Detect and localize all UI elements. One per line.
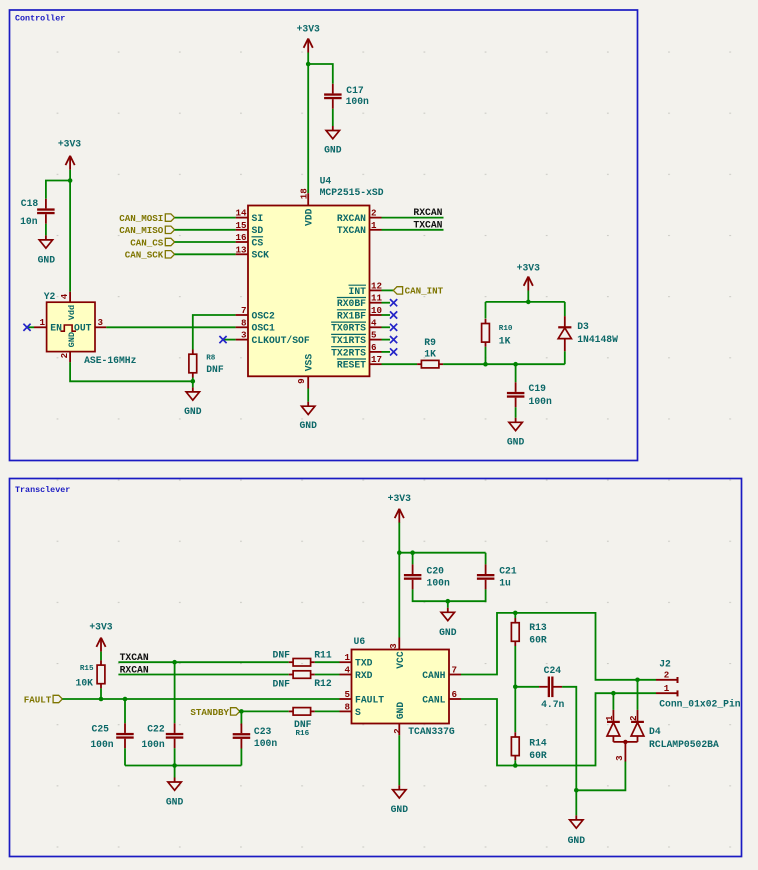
sheet box Transceiver: [10, 479, 742, 857]
svg-text:14: 14: [235, 208, 247, 219]
wire branch to C17: [308, 64, 333, 84]
wire TXCAN: [382, 229, 444, 231]
svg-text:3: 3: [241, 330, 247, 341]
node junction R14 bottom: [513, 763, 518, 768]
U4 pin 3 CLKOUT/SOF: [236, 339, 248, 341]
svg-text:STANDBY: STANDBY: [190, 707, 229, 718]
wire +3V3 stem: [69, 170, 71, 181]
resistor R16: [289, 710, 293, 712]
wire CANH net: [461, 613, 656, 680]
wire D4 pin3 to ground net: [576, 762, 625, 791]
svg-text:EN: EN: [50, 323, 62, 334]
wire C25 branch: [124, 699, 126, 723]
svg-text:DNF: DNF: [273, 650, 291, 661]
svg-text:OSC1: OSC1: [252, 323, 275, 334]
svg-text:Vdd: Vdd: [67, 305, 77, 320]
wire RXCAN: [382, 217, 444, 219]
wire FAULT to U6: [62, 698, 339, 700]
svg-text:1: 1: [604, 715, 615, 721]
wire C22 to rail: [174, 748, 176, 765]
wire C23 branch: [240, 711, 242, 723]
capacitor C21: [485, 564, 487, 574]
U4 pin 4 TX0RTS: [370, 326, 382, 328]
wire R16 to U6 S: [315, 710, 340, 712]
capacitor C17: [332, 84, 334, 94]
ground below U4: [307, 402, 309, 407]
svg-text:5: 5: [344, 689, 350, 700]
resistor R11: [289, 661, 293, 663]
svg-text:GND: GND: [439, 627, 457, 638]
no-connect X on U4 right pin: [382, 314, 391, 316]
D4 pin 3 lead: [624, 742, 626, 762]
wire VDD vertical to U4 pin 18: [307, 64, 309, 193]
U4 pin 8 OSC1: [236, 326, 248, 328]
svg-text:3: 3: [614, 755, 625, 761]
svg-text:4: 4: [59, 293, 70, 299]
svg-text:+3V3: +3V3: [517, 262, 540, 273]
svg-text:100n: 100n: [427, 578, 450, 589]
wire C21 top lead: [485, 553, 487, 565]
wire Y2 GND pin to R8 bottom rail: [70, 362, 193, 381]
svg-text:C22: C22: [147, 724, 165, 735]
svg-text:60R: 60R: [529, 635, 547, 646]
Y2 pin 3 OUT (right): [95, 326, 106, 328]
capacitor C20: [412, 564, 414, 574]
svg-text:DNF: DNF: [294, 719, 312, 730]
svg-text:+3V3: +3V3: [297, 24, 320, 35]
svg-text:R12: R12: [314, 678, 332, 689]
node junction D4 pin1 branch: [611, 691, 616, 696]
wire +3V3 to rail: [527, 291, 529, 302]
resistor R14: [514, 732, 516, 737]
svg-text:R8: R8: [206, 355, 216, 363]
capacitor C25: [124, 723, 126, 733]
svg-text:GND: GND: [395, 702, 406, 720]
wire R9 to C19/D3 rail: [443, 363, 565, 365]
D4 internal junction: [613, 741, 637, 743]
svg-text:C21: C21: [499, 566, 517, 577]
svg-text:3: 3: [388, 643, 399, 649]
svg-text:+3V3: +3V3: [58, 139, 81, 150]
svg-text:CANL: CANL: [422, 694, 445, 705]
svg-text:C18: C18: [21, 198, 39, 209]
U6 pin 2 GND (bottom): [398, 724, 400, 736]
wire VSS to ground: [307, 389, 309, 402]
node junction +3V3/C18: [68, 178, 73, 183]
wire C25 to rail: [124, 748, 126, 765]
svg-text:2: 2: [392, 728, 403, 734]
svg-text:D4: D4: [649, 726, 661, 737]
U4 pin 7 OSC2: [236, 314, 248, 316]
U4 pin 14 SI: [236, 217, 248, 219]
ground below C20/C21: [447, 608, 449, 613]
node junction C24/D4 ground: [574, 788, 579, 793]
capacitor C23: [240, 724, 242, 734]
resistor R10: [485, 319, 487, 324]
svg-text:GND: GND: [568, 835, 586, 846]
wire CAN_CS to U4: [175, 241, 236, 243]
U4 pin 2 RXCAN: [370, 217, 382, 219]
U4 pin 11 RX0BF: [370, 302, 382, 304]
wire caps ground rail: [125, 765, 241, 767]
svg-text:CAN_CS: CAN_CS: [130, 237, 164, 248]
node junction R15/FAULT: [99, 697, 104, 702]
svg-text:DNF: DNF: [206, 364, 224, 375]
no-connect X on U4 right pin: [382, 302, 391, 304]
svg-text:12: 12: [371, 280, 382, 291]
capacitor C22: [174, 723, 176, 733]
svg-text:2: 2: [664, 670, 670, 681]
svg-text:R9: R9: [424, 337, 436, 348]
node junction +3V3/C17: [306, 62, 311, 67]
svg-text:GND: GND: [299, 420, 317, 431]
svg-text:2: 2: [59, 353, 70, 359]
svg-text:7: 7: [452, 665, 458, 676]
svg-text:10n: 10n: [20, 216, 38, 227]
svg-text:6: 6: [452, 689, 458, 700]
wire branch to C18: [46, 181, 70, 199]
svg-text:S: S: [355, 707, 361, 718]
U6 pin 7 CANH: [449, 674, 461, 676]
svg-text:C17: C17: [346, 85, 364, 96]
node junction R13 top: [513, 611, 518, 616]
U4 pin 13 SCK: [236, 253, 248, 255]
svg-text:17: 17: [371, 354, 382, 365]
wire TXCAN to R11: [118, 661, 288, 663]
svg-text:CANH: CANH: [422, 670, 445, 681]
svg-text:Y2: Y2: [44, 291, 56, 302]
wire R15 to FAULT net: [100, 688, 102, 699]
wire C24 right to ground net: [562, 687, 576, 791]
wire +3V3 down to Y2 Vdd pin 4: [69, 181, 71, 292]
wire R10 to bottom rail: [485, 347, 487, 364]
wire U6 GND to ground: [398, 735, 400, 785]
U4 pin 10 RX1BF: [370, 314, 382, 316]
svg-text:1: 1: [664, 683, 670, 694]
svg-text:TXCAN: TXCAN: [413, 219, 442, 230]
wire INT to CAN_INT label: [382, 289, 394, 291]
svg-text:CAN_MOSI: CAN_MOSI: [119, 213, 163, 224]
wire top rail R10-D3: [486, 301, 565, 303]
wire to ground: [447, 601, 449, 608]
wire ground drop: [575, 790, 577, 815]
wire Y2 OUT to U4 OSC1: [106, 326, 235, 328]
svg-text:FAULT: FAULT: [355, 694, 384, 705]
capacitor C24: [539, 686, 548, 688]
svg-text:R15: R15: [80, 665, 94, 673]
svg-text:1: 1: [344, 652, 350, 663]
sheet box Controller: [10, 10, 638, 461]
wire U4 OSC2 down to R8: [193, 315, 236, 350]
U4 pin 9 VSS (bottom): [307, 376, 309, 388]
capacitor C19: [515, 382, 517, 392]
svg-text:1: 1: [39, 317, 45, 328]
svg-text:TX2RTS: TX2RTS: [331, 347, 366, 358]
wire R13 to C24 node: [514, 646, 516, 687]
svg-text:CAN_MISO: CAN_MISO: [119, 225, 164, 236]
J2 pin 2: [656, 679, 678, 681]
svg-text:TX1RTS: TX1RTS: [331, 335, 366, 346]
svg-text:VCC: VCC: [395, 651, 406, 669]
U4 pin 1 TXCAN: [370, 229, 382, 231]
svg-text:15: 15: [235, 220, 247, 231]
wire +3V3 stem to junction: [307, 53, 309, 65]
svg-text:RCLAMP0502BA: RCLAMP0502BA: [649, 739, 719, 750]
svg-text:CS: CS: [252, 237, 264, 248]
Y2 square-wave glyph: [61, 325, 77, 331]
svg-text:U6: U6: [354, 636, 366, 647]
svg-text:Controller: Controller: [15, 13, 65, 23]
node junction R8/Y2 ground net: [191, 379, 196, 384]
svg-text:5: 5: [371, 330, 377, 341]
node junction +3V3 rail: [526, 300, 531, 305]
svg-text:+3V3: +3V3: [89, 621, 112, 632]
wire CAN_MISO to U4: [175, 229, 236, 231]
node junction C20 top: [410, 550, 415, 555]
resistor R13: [514, 618, 516, 623]
svg-text:GND: GND: [507, 437, 525, 448]
resistor R12: [289, 674, 293, 676]
ground below U6: [398, 785, 400, 790]
node junction C23/STANDBY: [239, 709, 244, 714]
wire R14 bottom lead: [514, 760, 516, 765]
U4 pin 12 INT: [370, 289, 382, 291]
svg-text:R16: R16: [296, 730, 310, 738]
wire C24 left lead: [515, 686, 539, 688]
U4 pin 16 CS: [236, 241, 248, 243]
wire RESET to R9: [382, 363, 418, 365]
wire CAN_MOSI to U4: [175, 217, 236, 219]
svg-text:11: 11: [371, 293, 383, 304]
wire CANL net: [461, 693, 656, 765]
svg-text:Conn_01x02_Pin: Conn_01x02_Pin: [659, 698, 741, 709]
wire C20 top lead: [412, 553, 414, 565]
J2 pin 1: [656, 692, 678, 694]
svg-text:SD: SD: [252, 225, 264, 236]
ground below C19: [515, 418, 517, 423]
U4 pin 18 VDD (top): [307, 193, 309, 205]
svg-text:CAN_SCK: CAN_SCK: [125, 250, 164, 261]
svg-text:R13: R13: [529, 622, 547, 633]
svg-text:RXCAN: RXCAN: [337, 213, 366, 224]
ground below R8: [192, 387, 194, 392]
no-connect X on U4 pin 3 CLKOUT/SOF: [224, 339, 236, 341]
svg-text:16: 16: [235, 232, 246, 243]
svg-text:MCP2515-xSD: MCP2515-xSD: [320, 187, 384, 198]
svg-text:GND: GND: [166, 797, 184, 808]
wire rail to R10: [485, 302, 487, 319]
svg-text:TXD: TXD: [355, 658, 373, 669]
wire rail to ground: [174, 766, 176, 778]
svg-text:C23: C23: [254, 726, 272, 737]
wire R11 to U6 TXD: [315, 661, 340, 663]
IC U4 MCP2515-xSD body: [248, 206, 370, 377]
svg-text:VSS: VSS: [304, 354, 315, 372]
wire D3 to bottom rail: [564, 351, 566, 364]
svg-text:GND: GND: [38, 255, 56, 266]
resistor R9: [417, 363, 421, 365]
node junction C19 top: [513, 362, 518, 367]
wire rail to D3: [564, 302, 566, 316]
crystal oscillator Y2: [47, 302, 95, 351]
svg-text:U4: U4: [320, 176, 332, 187]
svg-text:TX0RTS: TX0RTS: [331, 323, 366, 334]
svg-text:GND: GND: [184, 406, 202, 417]
node junction +3V3/C20 rail: [397, 550, 402, 555]
svg-text:CLKOUT/SOF: CLKOUT/SOF: [252, 335, 310, 346]
svg-text:SI: SI: [252, 213, 264, 224]
wire junction to ground: [192, 381, 194, 387]
svg-text:GND: GND: [67, 332, 77, 347]
svg-text:RXD: RXD: [355, 670, 373, 681]
svg-text:13: 13: [235, 244, 247, 255]
wire C17 to ground: [332, 109, 334, 126]
dual diode D4 RCLAMP0502BA: [612, 693, 614, 710]
U6 pin 3 VCC (top): [398, 638, 400, 650]
svg-text:C20: C20: [427, 566, 445, 577]
svg-text:CAN_INT: CAN_INT: [405, 286, 444, 297]
U4 pin 15 SD: [236, 229, 248, 231]
U6 pin 1 TXD: [340, 661, 352, 663]
svg-text:+3V3: +3V3: [388, 493, 411, 504]
no-connect X on Y2 pin 1: [28, 326, 34, 328]
IC U6 TCAN337G body: [352, 650, 450, 724]
wire C19 to ground: [515, 407, 517, 418]
Y2 pin 2 GND (bottom): [69, 352, 71, 363]
svg-text:18: 18: [298, 188, 309, 200]
svg-text:6: 6: [371, 342, 377, 353]
wire VCC vertical to U6 pin 3: [398, 553, 400, 638]
wire R8 bottom to junction: [192, 378, 194, 382]
svg-text:100n: 100n: [529, 396, 552, 407]
svg-text:RX1BF: RX1BF: [337, 310, 366, 321]
wire C23 to rail: [240, 749, 242, 766]
svg-text:1N4148W: 1N4148W: [577, 334, 618, 345]
svg-text:FAULT: FAULT: [24, 694, 52, 705]
hierarchical label CAN_INT: [393, 287, 402, 294]
svg-text:4.7n: 4.7n: [541, 699, 564, 710]
svg-text:8: 8: [344, 701, 350, 712]
svg-text:2: 2: [628, 715, 639, 721]
svg-text:DNF: DNF: [273, 678, 291, 689]
wire C22 branch (from TXCAN): [174, 662, 176, 723]
svg-text:1K: 1K: [424, 349, 436, 360]
U6 pin 6 CANL: [449, 698, 461, 700]
svg-text:RXCAN: RXCAN: [413, 207, 442, 218]
svg-text:4: 4: [344, 665, 350, 676]
svg-text:4: 4: [371, 317, 377, 328]
ground below C17: [332, 126, 334, 131]
svg-text:1: 1: [371, 220, 377, 231]
wire STANDBY to R16: [240, 710, 289, 712]
node junction R13/R14/C24: [513, 685, 518, 690]
no-connect X on U4 right pin: [382, 339, 391, 341]
svg-text:100n: 100n: [346, 96, 369, 107]
no-connect X on U4 right pin: [382, 351, 391, 353]
svg-text:OSC2: OSC2: [252, 310, 275, 321]
svg-text:C25: C25: [92, 724, 110, 735]
wire CAN_SCK to U4: [175, 253, 236, 255]
svg-text:GND: GND: [391, 804, 409, 815]
svg-text:9: 9: [296, 378, 307, 384]
capacitor C18: [45, 199, 47, 209]
U4 pin 17 RESET: [370, 363, 382, 365]
diode D3: [564, 316, 566, 327]
U4 pin 6 TX2RTS: [370, 351, 382, 353]
svg-text:SCK: SCK: [252, 250, 270, 261]
svg-text:C24: C24: [544, 665, 562, 676]
resistor R8: [192, 350, 194, 355]
wire RXCAN to R12: [118, 674, 288, 676]
wire R12 to U6 RXD: [315, 674, 340, 676]
no-connect X on U4 right pin: [382, 326, 391, 328]
svg-text:100n: 100n: [141, 739, 164, 750]
Y2 pin 4 Vdd (top): [69, 292, 71, 302]
wire R13 top lead: [514, 613, 516, 618]
svg-text:10K: 10K: [76, 678, 94, 689]
svg-text:ASE-16MHz: ASE-16MHz: [84, 355, 137, 366]
node junction TXCAN/C22: [172, 660, 177, 665]
svg-text:60R: 60R: [529, 750, 547, 761]
wire R14 top lead: [514, 687, 516, 733]
node junction C25/FAULT: [123, 697, 128, 702]
node junction D4 pin2 branch: [635, 678, 640, 683]
svg-text:RESET: RESET: [337, 360, 366, 371]
resistor R15: [100, 660, 102, 665]
svg-text:Transclever: Transclever: [15, 485, 70, 495]
node junction rail ground: [172, 763, 177, 768]
svg-text:INT: INT: [349, 286, 367, 297]
ground below C18: [45, 235, 47, 240]
svg-text:10: 10: [371, 305, 382, 316]
node junction caps ground: [446, 599, 451, 604]
U6 pin 4 RXD: [340, 674, 352, 676]
node junction R10 bottom: [483, 362, 488, 367]
svg-text:100n: 100n: [90, 739, 113, 750]
wire +3V3 to R15: [100, 652, 102, 661]
ground below caps: [174, 778, 176, 783]
svg-text:C19: C19: [529, 383, 547, 394]
svg-text:VDD: VDD: [304, 208, 315, 226]
svg-text:1u: 1u: [499, 578, 511, 589]
wire cap rail bottom: [413, 589, 486, 601]
svg-text:7: 7: [241, 305, 247, 316]
wire C18 to ground: [45, 224, 47, 236]
svg-text:3: 3: [98, 317, 104, 328]
wire cap rail top: [399, 552, 485, 554]
svg-text:TXCAN: TXCAN: [337, 225, 366, 236]
wire C19 branch: [515, 364, 517, 382]
svg-text:1K: 1K: [499, 336, 511, 347]
svg-text:8: 8: [241, 317, 247, 328]
svg-text:TCAN337G: TCAN337G: [408, 726, 455, 737]
svg-text:D3: D3: [577, 321, 589, 332]
svg-text:R10: R10: [499, 325, 513, 333]
svg-text:J2: J2: [659, 658, 671, 669]
Y2 pin 1 EN (left): [34, 326, 47, 328]
svg-text:GND: GND: [324, 145, 342, 156]
U4 pin 5 TX1RTS: [370, 339, 382, 341]
svg-text:2: 2: [371, 208, 377, 219]
svg-text:RX0BF: RX0BF: [337, 298, 366, 309]
svg-text:100n: 100n: [254, 738, 277, 749]
U6 pin 5 FAULT: [340, 698, 352, 700]
ground below D4: [575, 815, 577, 820]
wire +3V3 down to junction: [398, 523, 400, 553]
svg-text:R11: R11: [314, 649, 332, 660]
svg-text:R14: R14: [529, 737, 547, 748]
U6 pin 8 S: [340, 710, 352, 712]
